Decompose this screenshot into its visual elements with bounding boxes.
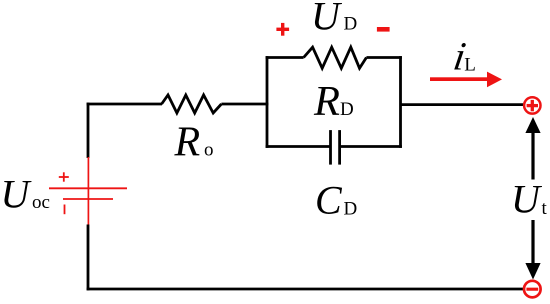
RC parallel box: top edge right segment: [366, 56, 402, 59]
RC parallel box: left edge: [266, 56, 269, 148]
svg-text:R: R: [174, 119, 201, 165]
wire: left vertical (top, above battery): [87, 103, 90, 158]
battery long (positive) plate: [49, 187, 127, 189]
voltage arrow Ut: upper shaft: [531, 131, 534, 180]
RC parallel box: bottom edge left segment: [266, 145, 331, 148]
svg-text:R: R: [313, 78, 340, 125]
positive terminal (red circled plus): [524, 97, 540, 113]
RC parallel box: right edge: [399, 56, 402, 148]
voltage arrow Ut: lower shaft: [531, 220, 534, 264]
capacitor CD plate left: [329, 130, 332, 165]
voltage arrow Ut: upper arrowhead (points up to + terminal): [525, 117, 540, 133]
voltage arrow Ut: lower arrowhead (points down to - terminal): [525, 263, 540, 280]
battery plus mark: [59, 176, 69, 178]
svg-text:D: D: [340, 99, 354, 120]
polarity minus of UD (red): [377, 27, 390, 32]
RC parallel box: bottom edge right segment: [340, 145, 402, 148]
svg-text:U: U: [1, 172, 33, 217]
wire: left vertical (bottom, below battery): [87, 225, 90, 291]
svg-text:C: C: [315, 178, 343, 223]
battery minus mark (vertical tick): [64, 205, 66, 215]
svg-text:D: D: [344, 199, 358, 220]
svg-text:D: D: [344, 14, 358, 35]
wire: box to positive terminal: [401, 103, 524, 106]
resistor Ro (zigzag): [162, 95, 222, 113]
negative terminal (red circled minus): [524, 281, 541, 298]
wire: top-left horizontal from battery node to resistor Ro: [87, 103, 162, 106]
voltage source Uoc (battery, red): [49, 157, 127, 225]
svg-text:oc: oc: [32, 192, 50, 213]
svg-text:L: L: [464, 54, 476, 75]
wire: Ro to RC box: [221, 103, 268, 106]
svg-text:o: o: [204, 140, 214, 161]
current arrow iL (red): [430, 72, 502, 88]
wire: bottom horizontal: [87, 288, 524, 291]
battery short (negative) plate: [63, 198, 113, 200]
svg-text:U: U: [511, 177, 543, 222]
svg-text:t: t: [542, 198, 548, 219]
polarity plus of UD (red): [276, 23, 289, 36]
battery internal vertical lead: [87, 157, 89, 225]
capacitor CD plate right: [338, 130, 341, 165]
svg-text:U: U: [311, 0, 343, 39]
RC parallel box: top edge left segment: [266, 56, 304, 59]
resistor RD (zigzag on top edge): [304, 47, 367, 68]
